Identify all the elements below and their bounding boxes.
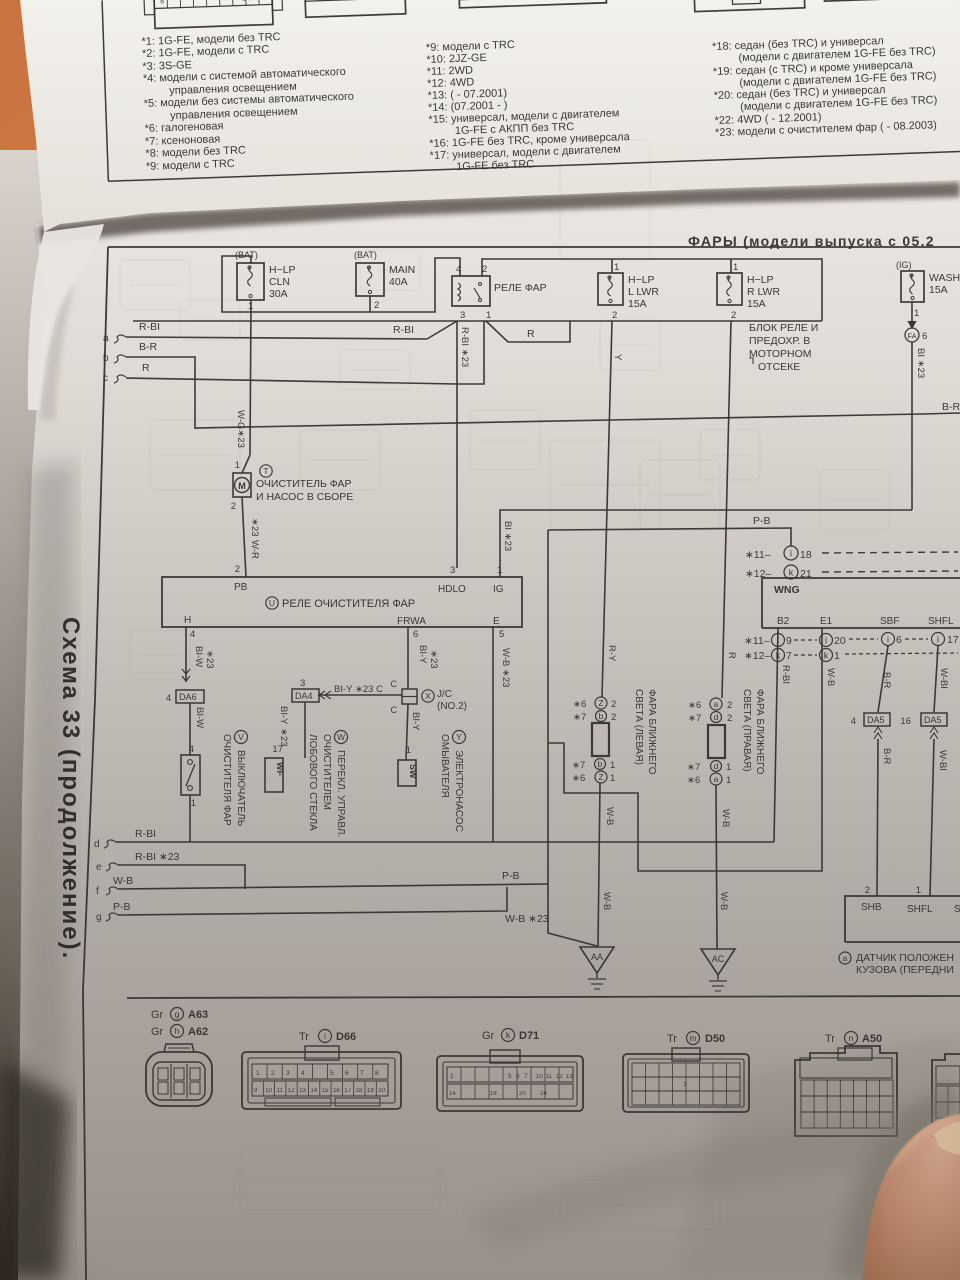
pump SW washer xyxy=(398,760,416,786)
wire fuse bus xyxy=(222,256,460,312)
wire Y fuse L LWR down xyxy=(602,321,612,697)
finger xyxy=(862,1114,960,1280)
block WNG xyxy=(762,578,960,628)
stacked page edges left side xyxy=(0,150,120,1280)
wire stub c R xyxy=(114,375,126,383)
wire W-BI DA5 to sensor xyxy=(930,739,934,896)
fuse F1 H-LP CLN 30A xyxy=(237,263,264,300)
ground AC xyxy=(701,949,735,975)
separator line above connector row xyxy=(127,996,960,998)
connector drawing A50 xyxy=(795,1046,897,1136)
label V switch name vertical xyxy=(235,731,248,744)
wire E W-B *23 down and right xyxy=(492,627,494,842)
schematic frame border xyxy=(83,247,108,1280)
connector FA 6 xyxy=(905,328,919,342)
connector drawing A62 round xyxy=(146,1052,212,1106)
connector drawing partial right edge xyxy=(932,1054,960,1128)
wire IG BI*23 horizontal from FA down to relay IG xyxy=(500,510,912,577)
connector drawing fragment top 3 xyxy=(459,0,607,8)
wire B-R DA5 to sensor xyxy=(877,739,878,896)
ground AA xyxy=(580,947,614,973)
wire W-R *23 motor to relay PB xyxy=(242,497,246,577)
wire P-B vertical to ground AA xyxy=(548,530,597,946)
wire R-BI from d-line up to WNG B2 xyxy=(774,628,778,842)
motor headlamp washer pump xyxy=(233,473,251,497)
connector drawing fragment top 5 xyxy=(823,0,894,1)
wire J/C to SW pump xyxy=(406,704,408,760)
fuse F4 H-LP R LWR 15A xyxy=(730,259,732,273)
wire stub d R-BI long line xyxy=(104,840,116,848)
wire branch to DA4 with arrows xyxy=(318,694,402,696)
wire main bus R xyxy=(133,320,822,322)
wire B-R SBF down to DA5 xyxy=(878,646,888,712)
fuse F3 H-LP L LWR 15A xyxy=(611,259,613,273)
wire BI *23 down from FA xyxy=(911,342,913,510)
relay U washer control РЕЛЕ ОЧИСТИТЕЛЯ ФАР xyxy=(162,577,522,627)
ghost show-through marks xyxy=(120,140,890,1230)
label sensor name xyxy=(839,952,851,964)
finger shadow on page xyxy=(838,1082,960,1280)
wire relay pin1 R jog xyxy=(486,321,570,342)
shadow gap between pages xyxy=(38,182,960,244)
wire H BI-W *23 down with arrow to DA6 xyxy=(185,627,187,682)
wire DA4 down to WF xyxy=(304,702,306,758)
sensor box height control front xyxy=(845,896,960,942)
wire W-B right headlight to ground AC xyxy=(716,785,717,949)
wire stub a R-BI xyxy=(114,335,126,343)
junction J/C NO.2 xyxy=(402,689,417,704)
connector drawing D50 xyxy=(623,1054,749,1112)
wire relay top bus xyxy=(482,259,822,321)
footnote box border xyxy=(102,0,108,181)
wire switch to d line xyxy=(189,795,191,842)
connector drawing D66 xyxy=(242,1052,401,1109)
wire W-BI SHFL down to DA5 xyxy=(934,646,938,712)
switch WF windshield wiper control xyxy=(265,758,283,792)
page corner curl xyxy=(28,224,104,410)
top footnotes page xyxy=(20,0,960,232)
wire R fuse R LWR down xyxy=(722,321,731,698)
switch headlamp washer xyxy=(181,755,200,795)
connector drawing fragment top 4 xyxy=(693,0,805,12)
wire P-B top to connector i18 xyxy=(548,528,791,546)
relay headlight РЕЛЕ ФАР xyxy=(452,276,490,306)
wire W-B E1 staircase xyxy=(548,628,822,871)
wire stub b B-R xyxy=(114,355,126,363)
connector drawing fragment top 2 xyxy=(304,0,405,17)
fuse F2 MAIN 40A xyxy=(356,263,384,296)
wire W-B left headlight to ground AA xyxy=(598,783,600,947)
wire stub f W-B xyxy=(106,887,118,895)
wire stub g P-B xyxy=(106,913,118,921)
label Y pump name vertical xyxy=(453,731,466,744)
label W wiper switch name vertical xyxy=(335,731,348,744)
wire W-G *23 fuse1 to motor xyxy=(250,300,251,455)
wire R-BI *23 relay pin3 down to HDLO xyxy=(456,321,458,568)
wire WASH to FA connector with arrow xyxy=(911,302,913,326)
connector drawing fragment top 1 xyxy=(153,0,273,29)
wire BI-W DA6 to switch xyxy=(189,703,191,755)
wire stub e R-BI *23 xyxy=(106,863,118,871)
connector drawing D71 xyxy=(437,1056,583,1111)
wire FRWA BI-Y *23 down xyxy=(407,627,409,689)
